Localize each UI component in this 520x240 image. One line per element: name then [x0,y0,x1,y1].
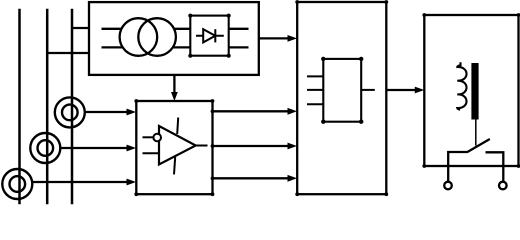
IC U2 [323,59,361,122]
op-amp bottom tick [174,157,175,174]
switch left lead [448,152,468,182]
wire CT3 to amplifier with arrow [32,181,127,183]
power supply box [89,2,259,75]
amplifier box [136,101,212,194]
wire transformer secondary lead upper [174,28,190,30]
output relay box [424,15,518,166]
IC pin right [361,89,375,91]
terminal left [444,182,452,190]
op-amp upper input wire [143,136,154,138]
wire amplifier output 3 with arrow [213,177,289,179]
diode D1 [196,35,224,37]
switch right lead [486,152,504,181]
IC pin left 1 [307,75,323,77]
op-amp output wire [196,145,208,147]
wire CT1 to amplifier with arrow [85,111,128,113]
terminal right [499,182,507,190]
IC pin left 2 [307,89,323,91]
junction dots logic box [295,0,388,196]
IC pin left 3 [307,103,323,105]
relay coil K1 [457,62,466,109]
wire rectifier output upper [229,28,249,30]
op-amp U1 triangle [159,126,196,165]
op-amp lower input wire [143,152,159,154]
rectifier box [190,16,228,56]
wire transformer secondary lead lower [173,46,191,48]
wire transformer primary lead upper [102,28,122,30]
wire power supply to logic box with arrow [259,37,289,39]
bus line L1 [18,9,21,205]
wire amplifier output 2 with arrow [213,145,289,147]
wire power supply down to amplifier with arrow [173,75,175,93]
wire amplifier output 1 with arrow [213,110,289,112]
wire L2 to power-supply box [47,52,89,54]
current transformer CT2 [30,133,60,163]
junction dots relay box [422,13,520,168]
junction dots amplifier box [134,99,214,196]
wire logic box to relay box with arrow [386,89,416,91]
wire CT2 to amplifier with arrow [60,147,127,149]
transformer T1 [120,18,158,56]
mechanical link [475,120,477,146]
wire transformer primary lead lower [102,46,123,48]
bus line L2 [46,9,49,205]
bus line L3 [71,9,74,205]
op-amp inverting bubble [153,134,161,142]
wire L3 to power-supply box [72,27,89,29]
relay core bar [471,63,478,120]
wire rectifier output lower [229,46,249,48]
op-amp top tick [177,118,178,135]
current transformer CT1 [55,97,85,127]
switch blade [467,139,489,152]
current transformer CT3 [2,169,32,199]
logic box [297,2,386,194]
